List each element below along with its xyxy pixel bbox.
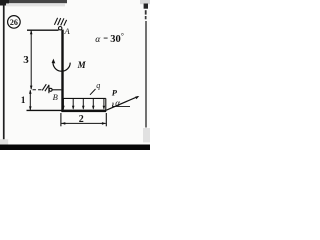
svg-text:26: 26 bbox=[10, 18, 18, 27]
svg-text:A: A bbox=[64, 26, 71, 36]
svg-text:°: ° bbox=[121, 32, 124, 41]
svg-text:=: = bbox=[103, 33, 108, 43]
svg-text:B: B bbox=[53, 92, 58, 102]
svg-text:30: 30 bbox=[110, 34, 121, 45]
svg-text:2: 2 bbox=[79, 114, 84, 125]
svg-text:q: q bbox=[96, 81, 100, 90]
svg-text:3: 3 bbox=[23, 54, 29, 66]
svg-text:M: M bbox=[77, 60, 87, 70]
svg-text:P: P bbox=[112, 87, 118, 97]
svg-text:1: 1 bbox=[21, 96, 26, 106]
svg-text:α: α bbox=[115, 98, 120, 108]
